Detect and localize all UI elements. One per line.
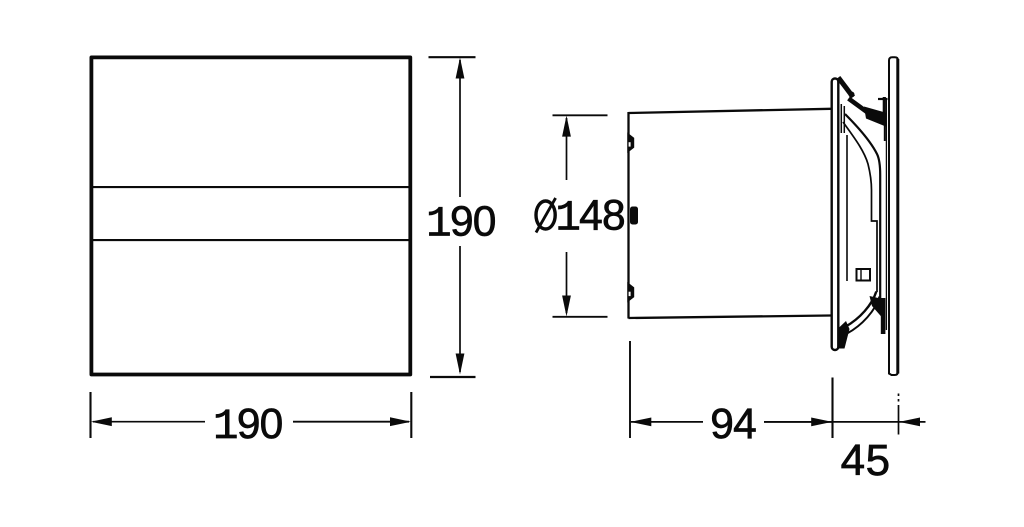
dimension line (94 dim) [631,421,703,423]
dim text 190 vertical [426,199,496,249]
dim text 45 [841,436,890,485]
front panel outline (square 190x190) [91,57,410,374]
dimension line (45 dim) [833,421,926,423]
duct body bottom edge [629,316,831,319]
front panel glass joint line lower [93,239,410,241]
bell left wall vertical [846,135,848,281]
dark blob at plate bottom [838,321,850,349]
terminal tab divider [860,269,862,281]
dark streak left of glass [883,97,886,124]
duct clip blob middle [630,207,638,225]
screw boss tick top [878,98,888,100]
arrowhead up (dia 148 dim) [562,116,571,137]
glass front panel [889,57,898,375]
bell outer arc bottom [845,292,876,328]
svg-text:9: 9 [710,401,734,448]
bell wall short verticals below beak [840,104,842,133]
terminal tab box [857,269,871,281]
svg-text:8: 8 [602,193,626,240]
dimension line vertical (right 190 dim) [459,60,461,197]
extension line top (right 190 dim) [429,56,476,58]
bell rim blob [849,92,855,98]
svg-text:4: 4 [733,401,757,448]
svg-text:1: 1 [555,195,581,243]
motor bracket thin line near glass [885,100,887,330]
svg-text:0: 0 [473,199,497,246]
arrowhead left (94 dim) [630,418,651,427]
arrowhead down (right 190 dim) [456,354,465,375]
mounting plate [832,79,839,351]
dark junction triangle bottom right [870,296,883,318]
extension line bottom (dia 148 dim) [553,316,608,318]
dim text dia148 [0,0,1,1]
duct body left edge [627,112,629,319]
bell column bottom dark [881,298,886,334]
bell inner arc bottom [847,297,880,334]
extension tick right (bottom 190 dim) [410,392,412,438]
bell outer arc top [845,114,880,300]
svg-text:4: 4 [841,436,865,485]
duct snap notch upper [629,135,634,151]
svg-text:5: 5 [866,436,890,485]
svg-text:1: 1 [213,403,239,451]
diameter symbol drawn [536,198,556,233]
arrowhead down (dia 148 dim) [562,296,571,317]
arrowhead up (right 190 dim) [456,58,465,79]
extension line top (dia 148 dim) [553,114,608,116]
glass front panel right edge thick [896,59,899,374]
duct body top edge [629,109,831,113]
bell inner arc top [843,122,877,292]
duct snap notch lower [629,285,634,301]
dim text 94 [710,401,756,448]
extension line bottom (right 190 dim) [430,376,476,378]
extension line right dash-dot (45 dim) [898,405,900,435]
dimension line vertical (dia 148 dim) [566,118,568,180]
svg-text:1: 1 [426,201,452,249]
extension line left (94 dim) [629,341,631,438]
arrowhead left (bottom 190 dim) [91,417,112,426]
extension tick left (bottom 190 dim) [89,392,91,438]
arrowhead right (94 dim) [811,418,832,427]
arrowhead right (bottom 190 dim) [390,417,411,426]
bell rim diagonal 2 [849,99,868,113]
extension line mid (94/45 dim) [831,378,833,439]
svg-text:4: 4 [579,193,603,240]
dimension line horizontal (bottom 190 dim) [93,421,205,423]
dark patch to glass [864,107,887,128]
arrowhead outside right (45 dim) [899,418,920,427]
front panel glass joint line upper [93,186,410,188]
svg-text:9: 9 [237,401,261,448]
svg-text:9: 9 [450,199,474,246]
dim text 190 horizontal [213,401,283,451]
bell rim diagonal 1 from plate top [838,78,853,98]
svg-text:0: 0 [260,401,284,448]
